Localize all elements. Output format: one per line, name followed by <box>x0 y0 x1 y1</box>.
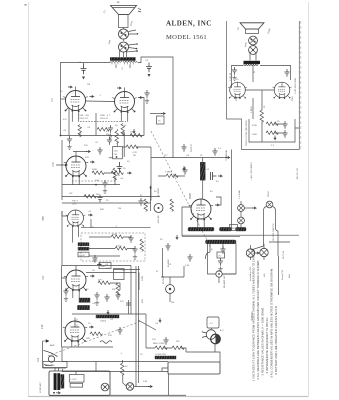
wire box to plug <box>211 328 213 329</box>
loop box L <box>78 252 89 257</box>
arrow S2a <box>255 252 259 254</box>
svg-text:56K: 56K <box>86 338 90 340</box>
svg-text:470K: 470K <box>252 125 258 127</box>
svg-text:S-6: S-6 <box>36 357 40 362</box>
trimmer block 2 <box>70 383 83 387</box>
wire V7 left <box>182 207 191 236</box>
jack J2 <box>216 271 222 277</box>
capacitor C12 <box>94 292 99 300</box>
RIGHT-SIDE dial lamps <box>217 149 299 295</box>
coil L5 core black <box>54 373 57 390</box>
wire dashed bus y122 <box>80 121 126 123</box>
capacitor C20 <box>187 254 192 262</box>
coil L4 hatched <box>78 305 90 309</box>
capacitor C24 <box>284 69 289 77</box>
capacitor C3 <box>108 125 113 133</box>
wire loop bottom <box>251 246 278 250</box>
svg-text:3M: 3M <box>112 289 115 291</box>
loop antenna box <box>49 371 110 396</box>
wire y371 bus <box>62 371 168 373</box>
svg-text:2 ALL READINGS ARE BETWEEN CH: 2 ALL READINGS ARE BETWEEN CHASSIS GROUN… <box>256 261 260 380</box>
svg-text:1M: 1M <box>118 208 121 210</box>
resistor R3 on bus <box>130 134 142 138</box>
svg-text:7A7: 7A7 <box>41 275 45 280</box>
speck top mid <box>117 2 119 3</box>
svg-text:1 VOLTAGES AT ±20% TOLERANCE: 1 VOLTAGES AT ±20% TOLERANCE FROM VALUES… <box>252 249 256 381</box>
wire x236 drop <box>223 244 236 275</box>
svg-text:RES·CORD: RES·CORD <box>153 343 165 345</box>
wire verticals mid <box>131 266 139 315</box>
wire circle arm <box>134 386 150 388</box>
wire y157.5 long <box>151 157 227 159</box>
AC plug P1 body <box>211 334 221 344</box>
arrow down inset <box>274 136 276 140</box>
wire row1 <box>89 236 131 238</box>
capacitor C5 <box>97 147 102 155</box>
wire V6 bottom <box>72 341 78 347</box>
arrow cord <box>159 318 161 322</box>
arrow V6 right <box>89 326 93 328</box>
capacitor C27 <box>218 258 223 266</box>
svg-text:AC·DC 117: AC·DC 117 <box>296 167 299 179</box>
svg-text:CIRCUIT FOR 2ND SPKR: CIRCUIT FOR 2ND SPKR <box>246 120 248 146</box>
RF-STAGE V5 <box>41 263 146 348</box>
svg-text:117V·60: 117V·60 <box>283 250 285 259</box>
terminal strip box <box>43 362 67 368</box>
MIXER-STAGE V6 + SWITCH + LOOP BOX <box>36 131 213 396</box>
svg-text:47K: 47K <box>98 280 102 282</box>
wire arm to right dot <box>127 51 137 52</box>
capacitor C17 <box>182 167 187 175</box>
arrow arm <box>148 385 152 387</box>
speaker SP2 neck <box>246 29 259 34</box>
wire bus y235.5 double <box>182 235 299 236</box>
wire V5 plate <box>75 266 77 271</box>
phono jack J1 <box>166 285 175 294</box>
junction dot A <box>60 135 62 137</box>
svg-text:5 ALL CONDENSER VALUES IN MFD: 5 ALL CONDENSER VALUES IN MFD UNLESS NOT… <box>270 268 274 378</box>
wire coil leads up <box>55 362 96 375</box>
voice coil VC2 <box>119 42 129 52</box>
arrow V4 right <box>88 214 92 216</box>
wire C1 tap <box>83 63 85 65</box>
wire cord left <box>146 314 186 352</box>
svg-text:1M: 1M <box>171 302 174 304</box>
SPEAKER-TL <box>61 6 174 158</box>
svg-text:150K: 150K <box>252 134 258 136</box>
plug prongs <box>202 332 207 338</box>
svg-text:COND·350: COND·350 <box>155 354 167 356</box>
wire V5 left <box>62 266 67 348</box>
svg-text:MODEL 1561: MODEL 1561 <box>166 34 207 41</box>
capacitor C22 <box>163 337 168 345</box>
wire V3 plate <box>73 152 87 158</box>
resistor R12 <box>166 174 178 178</box>
svg-text:C·2D 40: C·2D 40 <box>230 72 232 81</box>
ground G6 <box>232 76 236 81</box>
tube V4 7B8 <box>66 210 86 227</box>
wire lamp arm <box>244 207 253 209</box>
coil L5b core black <box>57 373 60 390</box>
wire bus y196.5 <box>62 196 160 198</box>
box 25 mid <box>157 116 165 124</box>
svg-text:ANT GND: ANT GND <box>45 364 55 367</box>
wire V8-V9 link <box>246 66 275 91</box>
capacitor C23 <box>232 67 237 75</box>
ground G5 <box>95 301 99 306</box>
svg-text:2 MEG: 2 MEG <box>251 106 253 113</box>
resistor R1 vertical <box>78 125 82 137</box>
wire R12 line <box>158 175 185 177</box>
wire Rosc <box>116 129 118 147</box>
arrow end y157.5 <box>226 156 230 158</box>
wire L7 top <box>202 158 204 163</box>
wire VC1 stubs <box>129 30 138 34</box>
wire inset mid vertical <box>253 90 262 119</box>
svg-text:47K: 47K <box>106 268 110 270</box>
speaker SP2 horn <box>240 23 264 29</box>
wire V7 bottom pins <box>198 219 204 227</box>
speaker SP1 horn <box>111 6 137 15</box>
wire left page edge <box>28 2 30 397</box>
resistor R osc vertical <box>115 131 119 143</box>
wire plug to loop <box>186 344 215 352</box>
wire y113 stub <box>150 113 162 115</box>
capacitor C26 <box>282 130 287 138</box>
junction bottom dots <box>53 392 55 394</box>
svg-text:AER: AER <box>50 344 55 347</box>
resistor R11b <box>111 171 123 175</box>
resistor R14 vertical tiny <box>121 363 125 375</box>
voice coil VC3 <box>249 36 258 45</box>
wire J1 stem <box>161 266 184 302</box>
wire right vertical ext <box>269 242 290 295</box>
svg-text:3 RESISTANCE VALUES IN OHMS,: 3 RESISTANCE VALUES IN OHMS, K = 1000 OH… <box>261 307 265 375</box>
capacitor C15 <box>117 162 123 172</box>
wire x124 vertical <box>123 132 125 157</box>
voice coil VC4 <box>249 46 258 55</box>
wire row y186 <box>62 184 120 186</box>
resistor R17 <box>266 131 278 135</box>
capacitor C21 <box>115 292 120 300</box>
capacitor C1 <box>81 64 87 74</box>
svg-text:L·H DIAL: L·H DIAL <box>238 189 241 199</box>
capacitor C2 <box>146 63 152 73</box>
wire VC2 to transformer <box>120 51 127 58</box>
cord resistor zigzag <box>155 346 167 350</box>
IF bar segment 1 <box>188 227 214 231</box>
svg-text:10K: 10K <box>114 151 118 153</box>
capacitor C18 <box>211 172 217 180</box>
wavy cord marks <box>100 341 112 344</box>
wire V4 left <box>62 211 68 216</box>
svg-text:4·7MEG: 4·7MEG <box>158 188 160 196</box>
ground G5b <box>64 297 68 302</box>
resistor R2 vertical <box>121 124 125 136</box>
wire right of R4 <box>104 173 115 185</box>
inset border <box>227 21 300 150</box>
socket circle small <box>154 204 163 213</box>
resistor R2b <box>97 128 109 132</box>
wire L7 to V7 <box>202 180 204 199</box>
SCATTERED VALUE LABELS <box>50 84 219 356</box>
svg-text:4 INTERMEDIATE FREQUENCY IS 4: 4 INTERMEDIATE FREQUENCY IS 455 KC <box>265 317 269 373</box>
resistor R10 <box>90 332 102 336</box>
svg-text:22K: 22K <box>108 335 112 337</box>
wire x150 drop <box>150 186 152 212</box>
wire loop leads <box>162 352 220 395</box>
capacitor C16 <box>212 148 217 156</box>
speck top left <box>25 4 27 6</box>
trimmer block <box>69 375 84 383</box>
arrow V5 right <box>90 275 94 277</box>
wire J2 loop <box>208 244 237 283</box>
ground G4 <box>133 255 137 260</box>
wire hook below <box>205 244 223 259</box>
INSET top right <box>227 21 301 150</box>
capacitor C25 <box>282 121 287 129</box>
svg-text:7B8: 7B8 <box>41 216 45 221</box>
capacitor C19 <box>220 246 225 254</box>
svg-text:PHONO: PHONO <box>163 276 165 284</box>
svg-text:RE AMP·SET: RE AMP·SET <box>223 274 226 288</box>
NOTES block <box>251 249 291 381</box>
resistor R12b vertical <box>170 199 174 211</box>
arrow V3 top <box>86 150 90 152</box>
arrow V2 top <box>117 87 121 89</box>
svg-text:35Z5 GT: 35Z5 GT <box>191 143 193 152</box>
transformer T1 winding bumps <box>111 61 138 62</box>
wire V3 left <box>56 140 65 165</box>
svg-text:Freq 1730: Freq 1730 <box>281 269 284 280</box>
arrow y113 <box>161 112 165 114</box>
wire y361 bus <box>62 361 168 363</box>
dial dashed diagonal long <box>151 131 213 252</box>
wire V3 bottom <box>73 177 79 185</box>
wire y258 row <box>89 255 120 257</box>
wire R14 <box>123 360 127 386</box>
resistor R4 <box>92 171 104 175</box>
svg-text:25L6 GT: 25L6 GT <box>80 118 89 120</box>
svg-text:LOOP: LOOP <box>79 255 86 257</box>
arrow right of box <box>97 263 101 265</box>
junction dot osc <box>116 156 118 158</box>
wire grid V1 down <box>68 108 70 136</box>
coil L6 hatched <box>61 375 64 389</box>
resistor R8b in box <box>115 247 127 251</box>
resistor R9 <box>98 281 110 285</box>
wire pair x136 x138.5 <box>136 266 139 387</box>
wire bottom page edge <box>28 396 308 398</box>
ground G7 <box>218 267 222 272</box>
svg-text:75K·T: 75K·T <box>72 201 79 203</box>
junction dot B <box>95 184 97 186</box>
ballast bar hatched <box>155 356 176 359</box>
switch S-1 blade <box>44 351 58 357</box>
wire lamp stem <box>240 201 242 227</box>
wire ladder links <box>262 122 299 143</box>
wire y314 bus <box>72 313 146 315</box>
svg-text:PILOT: PILOT <box>268 190 270 197</box>
wire T1 left lead <box>61 63 111 100</box>
on-off loop rounded <box>264 207 279 247</box>
wire V1 bottom down <box>72 111 78 122</box>
svg-text:10K: 10K <box>95 180 99 182</box>
wire S-1 riser <box>42 341 44 368</box>
CONVERTER-STAGE V4 <box>41 186 160 266</box>
switch S-1 rotor <box>48 356 54 362</box>
capacitor C9 in box <box>128 235 133 243</box>
svg-text:50K · 470: 50K · 470 <box>80 115 90 117</box>
T2 winding bumps <box>244 64 258 66</box>
svg-text:→ ALL VOLTAGES: → ALL VOLTAGES <box>250 162 253 181</box>
svg-text:700·2: 700·2 <box>116 246 122 248</box>
resistor R13 vertical <box>116 283 120 295</box>
wire T1 right lead <box>138 57 174 158</box>
osc box 10K 1W <box>113 147 123 159</box>
tube V3 7C5 <box>64 156 88 178</box>
svg-text:400·4W: 400·4W <box>158 214 160 223</box>
svg-text:14P: 14P <box>40 324 44 329</box>
small box 1000 <box>99 263 111 269</box>
resistor R15 vertical <box>260 110 264 122</box>
ground G3 <box>103 189 107 194</box>
wire VC2 stubs <box>129 44 137 49</box>
wire T2 left lead <box>232 66 244 89</box>
capacitor C4 <box>67 136 72 144</box>
transformer T2 bar <box>244 61 261 64</box>
wire inset inner loop <box>249 119 295 142</box>
wire y272 bus <box>86 272 137 274</box>
svg-text:10%: 10% <box>72 204 76 206</box>
svg-text:7C5: 7C5 <box>51 162 55 167</box>
wire VC4 down <box>250 54 256 61</box>
component cluster x128 <box>126 300 131 314</box>
wire y158 stub <box>109 157 113 159</box>
resistor R11 <box>126 145 138 149</box>
wire mid verticals <box>80 113 144 136</box>
wire V1-V2 link <box>86 100 115 103</box>
tube V8 <box>228 82 247 99</box>
voice coil VC1 <box>119 29 129 39</box>
wire left drop <box>60 99 62 136</box>
capacitor C10 in box <box>132 246 137 254</box>
switch wafer S2a <box>246 249 254 257</box>
dashed shaft volume <box>76 319 78 329</box>
resistor R8 in box <box>111 235 123 239</box>
svg-text:C·2D 600V 40W: C·2D 600V 40W <box>295 77 297 94</box>
IF bar lower <box>206 240 237 244</box>
svg-text:35Z5: 35Z5 <box>188 193 192 199</box>
arrowhead V3 grid <box>65 164 68 167</box>
wire x62 drop <box>61 164 63 200</box>
svg-text:6 BATTERY AND LINE OPERATED C: 6 BATTERY AND LINE OPERATED CHASSIS No 5… <box>274 306 278 375</box>
wire switch to bus <box>43 347 66 368</box>
tuning shaft circle <box>101 383 109 391</box>
tube V2 25L6 <box>112 92 136 114</box>
arrow volume wiper <box>107 310 109 314</box>
small box top <box>114 269 125 280</box>
wire y347 bus <box>62 346 113 348</box>
label cone marks <box>138 8 141 12</box>
capacitor C2b <box>144 90 149 98</box>
wire row2 <box>89 248 135 250</box>
svg-text:15K: 15K <box>130 132 134 134</box>
wire x62 drop2 <box>61 211 63 266</box>
switch wafer S2b <box>260 248 268 256</box>
svg-text:25L6 GT: 25L6 GT <box>100 118 109 120</box>
BOTTOM-POWER section <box>114 243 237 395</box>
svg-text:5 MEG: 5 MEG <box>165 172 172 174</box>
wire V4 bottom pins <box>73 226 79 243</box>
wire right page edge <box>308 2 310 397</box>
dashed box oscillator <box>81 233 145 261</box>
ground G1 <box>108 134 112 139</box>
capacitor C8 <box>138 198 143 206</box>
dashed heater line <box>72 180 115 182</box>
svg-text:10000: 10000 <box>100 321 107 323</box>
svg-text:220K: 220K <box>92 169 98 171</box>
pilot lamp I3 <box>266 201 273 208</box>
svg-text:AER: AER <box>230 227 235 230</box>
wire bus y135.5 <box>61 135 145 137</box>
resistor R7 vertical <box>144 199 148 211</box>
wire R9 right <box>111 283 121 290</box>
svg-text:47K: 47K <box>85 157 89 159</box>
small box 25 <box>217 252 225 258</box>
wire y147 link <box>122 146 151 148</box>
svg-text:1600: 1600 <box>112 234 118 236</box>
wire x231.5 drop <box>231 150 233 232</box>
wire pins to tubes <box>116 65 130 69</box>
arrow V2 right <box>138 96 142 98</box>
wire avc line <box>81 226 151 228</box>
wire bus y200 <box>62 202 151 204</box>
arrow R11b <box>127 172 131 174</box>
tube V5 7A7 <box>64 270 88 292</box>
OUTPUT-STAGE V1 V2 <box>60 86 144 150</box>
TITLE <box>166 20 212 42</box>
capacitor C13 <box>104 294 109 302</box>
speaker SP1 neck <box>119 15 129 28</box>
arrow into bus <box>133 129 135 133</box>
svg-text:ON·OFF SWITCH: ON·OFF SWITCH <box>273 223 275 241</box>
wire V4 right drop <box>90 219 92 227</box>
arrow V1 top <box>68 86 72 88</box>
arrow bottom <box>56 392 60 394</box>
tube V1 25L6 <box>63 91 87 113</box>
tube V9 <box>272 82 291 99</box>
resistor R8c vertical <box>140 239 144 251</box>
MIDDLE-COLUMN rectifier + IF <box>106 129 299 267</box>
svg-text:68K: 68K <box>100 209 104 211</box>
svg-text:TO AERIAL: TO AERIAL <box>225 149 228 161</box>
arrow under line <box>183 166 185 170</box>
lamp I2 <box>238 217 245 224</box>
capacitor C7 <box>97 195 102 203</box>
svg-text:25L6: 25L6 <box>292 95 294 101</box>
capacitor C15b <box>107 137 112 145</box>
svg-text:1M: 1M <box>87 84 90 86</box>
tube V6 <box>63 321 87 343</box>
arrow S-1 top <box>43 340 49 343</box>
volume control hatched bar <box>96 315 119 318</box>
coil L2 hatched <box>78 247 89 250</box>
ground G2 <box>67 145 71 150</box>
tuning gang dashed diagonal <box>48 321 141 356</box>
tube V7 35Z5 <box>189 199 213 221</box>
wire x151 vertical <box>150 147 152 201</box>
